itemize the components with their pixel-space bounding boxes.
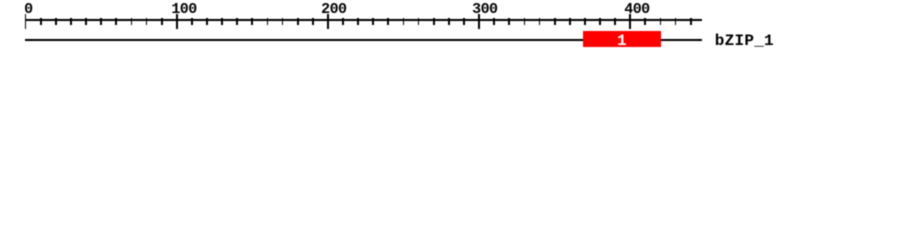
ruler minor tick 330 bbox=[524, 18, 526, 25]
ruler minor tick 270 bbox=[433, 18, 435, 25]
ruler minor tick 290 bbox=[463, 18, 465, 25]
ruler minor tick 320 bbox=[508, 18, 510, 25]
ruler minor tick 150 bbox=[251, 18, 253, 25]
ruler label 200 bbox=[321, 2, 346, 17]
domain occurrence label 1 bbox=[583, 33, 661, 49]
ruler minor tick 380 bbox=[599, 18, 601, 25]
ruler major tick 0 bbox=[25, 14, 27, 29]
ruler axis line bbox=[25, 19, 703, 21]
ruler minor tick 420 bbox=[660, 18, 662, 25]
ruler minor tick 390 bbox=[614, 18, 616, 25]
ruler minor tick 410 bbox=[644, 18, 646, 25]
domain box bZIP_1 (369-420) bbox=[583, 31, 661, 47]
ruler major tick 300 bbox=[478, 14, 480, 29]
ruler minor tick 90 bbox=[161, 18, 163, 25]
ruler minor tick 310 bbox=[493, 18, 495, 25]
ruler label 0 bbox=[24, 2, 32, 17]
ruler minor tick 280 bbox=[448, 18, 450, 25]
ruler minor tick 70 bbox=[131, 18, 133, 25]
ruler minor tick 40 bbox=[85, 18, 87, 25]
ruler minor tick 140 bbox=[236, 18, 238, 25]
ruler minor tick 240 bbox=[387, 18, 389, 25]
ruler minor tick 80 bbox=[146, 18, 148, 25]
ruler minor tick 30 bbox=[70, 18, 72, 25]
ruler minor tick 180 bbox=[297, 18, 299, 25]
ruler minor tick 430 bbox=[675, 18, 677, 25]
ruler label 400 bbox=[624, 2, 649, 17]
ruler minor tick 260 bbox=[418, 18, 420, 25]
ruler minor tick 220 bbox=[357, 18, 359, 25]
ruler minor tick 160 bbox=[267, 18, 269, 25]
ruler label 100 bbox=[171, 2, 196, 17]
ruler minor tick 50 bbox=[100, 18, 102, 25]
ruler minor tick 170 bbox=[282, 18, 284, 25]
ruler minor tick 210 bbox=[342, 18, 344, 25]
ruler major tick 100 bbox=[176, 14, 178, 29]
ruler minor tick 190 bbox=[312, 18, 314, 25]
ruler minor tick 60 bbox=[115, 18, 117, 25]
ruler minor tick 350 bbox=[554, 18, 556, 25]
ruler label 300 bbox=[472, 2, 497, 17]
ruler minor tick 360 bbox=[569, 18, 571, 25]
ruler minor tick 120 bbox=[206, 18, 208, 25]
ruler minor tick 440 bbox=[690, 18, 692, 25]
ruler minor tick 130 bbox=[221, 18, 223, 25]
ruler minor tick 370 bbox=[584, 18, 586, 25]
ruler major tick 400 bbox=[629, 14, 631, 29]
ruler minor tick 340 bbox=[539, 18, 541, 25]
ruler major tick 200 bbox=[327, 14, 329, 29]
ruler minor tick 230 bbox=[372, 18, 374, 25]
ruler minor tick 10 bbox=[40, 18, 42, 25]
ruler minor tick 20 bbox=[55, 18, 57, 25]
ruler minor tick 110 bbox=[191, 18, 193, 25]
ruler minor tick 250 bbox=[403, 18, 405, 25]
sequence backbone line bbox=[25, 39, 703, 41]
domain name label bZIP_1 bbox=[715, 33, 774, 49]
